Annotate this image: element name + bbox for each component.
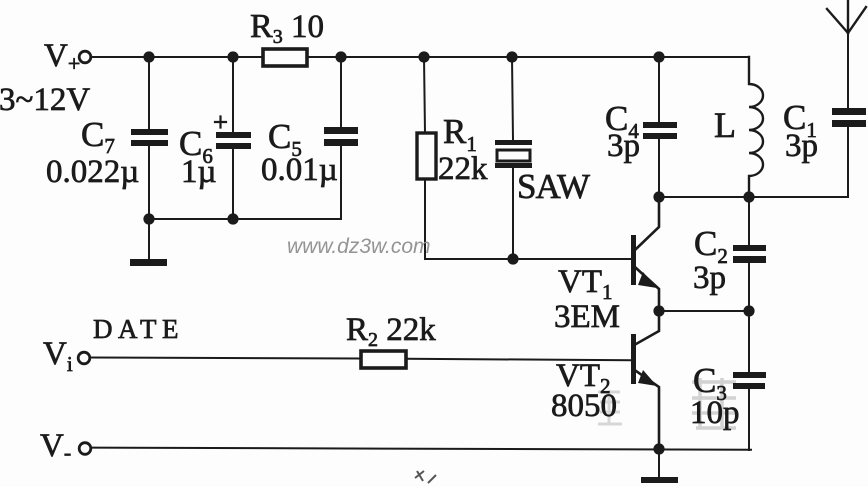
antenna bbox=[827, 0, 866, 108]
svg-text:3p: 3p bbox=[785, 128, 818, 164]
terminal Vi bbox=[78, 352, 90, 364]
svg-text:1µ: 1µ bbox=[181, 154, 217, 190]
svg-text:R1: R1 bbox=[443, 112, 477, 156]
svg-text:SAW: SAW bbox=[517, 167, 590, 206]
wire to bottom ground bbox=[658, 449, 660, 478]
junction tank rail / C4 bbox=[653, 191, 664, 202]
junction top rail / C6 bbox=[227, 51, 238, 62]
resistor R1 bbox=[417, 57, 436, 259]
svg-text:C7: C7 bbox=[81, 115, 115, 158]
junction top rail / C5 bbox=[335, 51, 346, 62]
faint watermark stamp behind 10p bbox=[692, 378, 736, 428]
svg-text:3p: 3p bbox=[693, 260, 726, 296]
resistor R2 bbox=[361, 351, 406, 368]
small stray mark bottom bbox=[415, 471, 436, 483]
wire Vi to R2 bbox=[90, 358, 361, 359]
svg-text:L: L bbox=[714, 105, 736, 145]
svg-text:0.01µ: 0.01µ bbox=[261, 152, 338, 188]
wire VT1 emitter to C2 node bbox=[659, 310, 749, 312]
junction middle rail / C2 C3 bbox=[743, 305, 754, 316]
svg-text:8050: 8050 bbox=[551, 388, 617, 424]
ground (left) bbox=[130, 259, 167, 266]
junction top rail / SAW bbox=[506, 51, 517, 62]
capacitor C4 bbox=[643, 57, 677, 197]
capacitor C6 (electrolytic) bbox=[215, 57, 251, 219]
svg-text:V-: V- bbox=[40, 428, 71, 465]
wire bottom-left rail bbox=[149, 218, 341, 220]
SAW resonator bbox=[495, 57, 532, 259]
transistor VT1 bbox=[631, 197, 659, 311]
wire R2 to VT2 base bbox=[406, 359, 631, 360]
capacitor C5 bbox=[324, 57, 358, 219]
capacitor C7 bbox=[131, 57, 168, 219]
wire V- rail bbox=[91, 448, 751, 450]
ground (bottom) bbox=[641, 477, 678, 483]
junction top rail / C4 bbox=[653, 51, 664, 62]
junction bottom rail / C7 bbox=[143, 213, 154, 224]
svg-text:0.022µ: 0.022µ bbox=[46, 154, 139, 190]
faint watermark stamp behind 8050 bbox=[598, 390, 622, 424]
junction base rail / SAW bbox=[507, 253, 518, 264]
capacitor C1 bbox=[832, 108, 866, 197]
svg-text:22k: 22k bbox=[438, 151, 488, 187]
transistor VT2 bbox=[631, 311, 659, 449]
svg-text:www.dz3w.com: www.dz3w.com bbox=[287, 235, 431, 258]
wire R3 to L corner bbox=[307, 56, 749, 58]
svg-text:3p: 3p bbox=[607, 128, 640, 164]
junction V- rail / emitter VT2 bbox=[653, 443, 664, 454]
resistor R3 bbox=[263, 49, 307, 66]
wire VT1 base rail bbox=[425, 258, 631, 260]
junction tank rail / L bbox=[743, 191, 754, 202]
wire to left ground bbox=[148, 219, 150, 260]
junction top rail / C7 bbox=[143, 51, 154, 62]
capacitor C3 bbox=[733, 311, 766, 450]
svg-text:R3 10: R3 10 bbox=[250, 8, 324, 48]
svg-text:Vi: Vi bbox=[43, 336, 73, 376]
inductor L bbox=[749, 57, 763, 197]
svg-text:3~12V: 3~12V bbox=[0, 82, 90, 118]
junction middle rail / VT1 emitter bbox=[653, 305, 664, 316]
capacitor C2 bbox=[733, 197, 766, 311]
svg-text:3EM: 3EM bbox=[554, 299, 620, 335]
junction bottom rail / C6 bbox=[227, 213, 238, 224]
terminal V+ bbox=[79, 51, 91, 63]
svg-text:R2 22k: R2 22k bbox=[346, 312, 436, 351]
svg-text:10p: 10p bbox=[690, 395, 740, 431]
wire tank bottom rail bbox=[659, 196, 848, 198]
wire V+ to R3 bbox=[91, 56, 263, 58]
svg-text:VT1: VT1 bbox=[558, 264, 613, 304]
svg-text:V+: V+ bbox=[44, 38, 80, 76]
junction top rail / R1 bbox=[418, 51, 429, 62]
terminal V- bbox=[79, 443, 91, 455]
svg-text:DATE: DATE bbox=[93, 314, 184, 344]
